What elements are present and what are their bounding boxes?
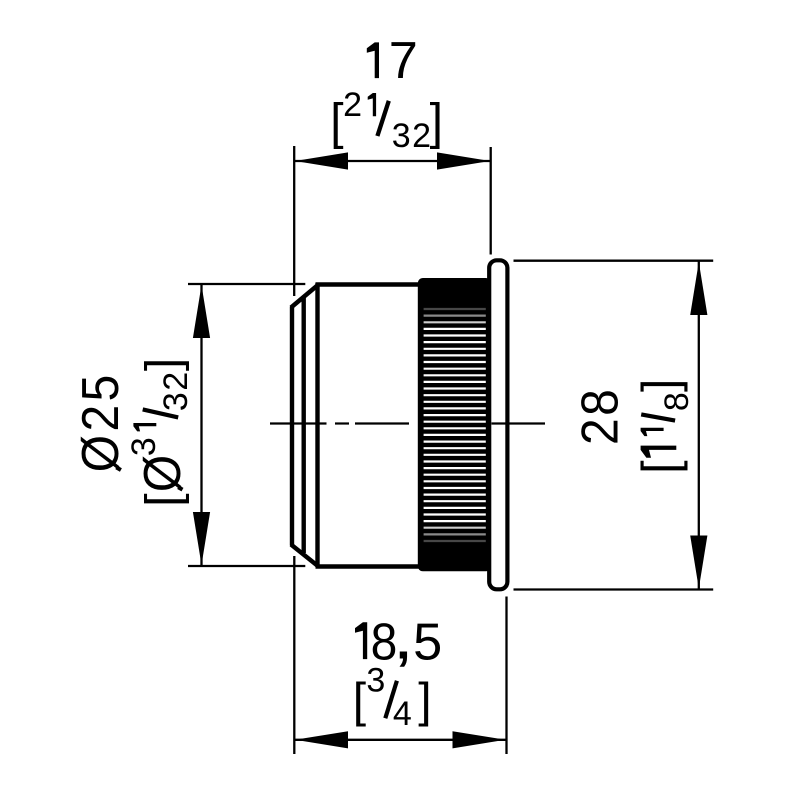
- knurled ring: [418, 278, 491, 571]
- dia 25 inch fraction (rotated): [125, 358, 195, 507]
- dim 17 dimension line: [294, 160, 491, 162]
- dia 25 arrowhead down: [193, 512, 210, 565]
- chamfer top edge: [291, 285, 319, 308]
- svg-text:]: ]: [137, 358, 190, 371]
- svg-text:4: 4: [393, 695, 412, 733]
- svg-text:[: [: [330, 95, 344, 150]
- svg-text:5: 5: [413, 613, 442, 671]
- cylinder top edge: [316, 282, 421, 286]
- dim 18,5 arrowhead left: [295, 731, 348, 748]
- dia 25 extension line top: [188, 283, 305, 285]
- dim 17 extension line right: [490, 147, 492, 255]
- svg-text:]: ]: [632, 379, 688, 392]
- dim 28 inch fraction (rotated): [632, 379, 696, 474]
- dim 28 arrowhead up: [690, 262, 707, 315]
- dim 28 extension line top: [514, 260, 714, 262]
- svg-text:2: 2: [343, 86, 362, 124]
- dim 17 value: [367, 32, 418, 90]
- dim 18,5 dimension line: [294, 739, 506, 741]
- svg-text:[: [: [353, 675, 366, 728]
- svg-text:32: 32: [392, 117, 433, 155]
- cylinder bottom edge: [316, 564, 421, 568]
- dim 18,5 value: [355, 601, 442, 673]
- front groove line: [302, 296, 306, 553]
- centerline: [270, 422, 545, 424]
- front face line: [290, 307, 294, 546]
- dim 28 value (rotated): [570, 387, 628, 445]
- dia 25 dimension line: [200, 284, 202, 566]
- svg-text:3: 3: [366, 661, 385, 699]
- dim 18,5 arrowhead right: [453, 731, 506, 748]
- chamfer bottom edge: [291, 545, 319, 567]
- dim 18,5 extension line right: [505, 597, 507, 755]
- dia 25 value (rotated): [71, 371, 129, 472]
- svg-text:[: [: [137, 493, 190, 506]
- svg-text:Ø25: Ø25: [71, 371, 129, 472]
- svg-text:,: ,: [393, 601, 414, 673]
- svg-text:Ø: Ø: [133, 455, 191, 492]
- dim 17 arrowhead right: [437, 152, 490, 169]
- dim 17 extension line left: [293, 146, 295, 296]
- dim 18,5 extension line left: [293, 556, 295, 754]
- body outline: [291, 283, 420, 567]
- dim 18,5 inch fraction [3/4]: [353, 661, 432, 733]
- dim 28 arrowhead down: [690, 536, 707, 589]
- shoulder line: [315, 283, 319, 567]
- dia 25 extension line bottom: [188, 565, 305, 567]
- svg-text:[: [: [632, 460, 688, 474]
- dia 25 arrowhead up: [193, 285, 210, 338]
- svg-text:3: 3: [125, 437, 163, 456]
- dim 28 extension line bottom: [514, 588, 714, 590]
- flange disc: [489, 260, 507, 589]
- svg-text:28: 28: [570, 387, 628, 445]
- svg-text:]: ]: [418, 675, 431, 728]
- dim 17 inch fraction [21/32]: [330, 86, 443, 155]
- svg-text:8: 8: [658, 392, 696, 411]
- svg-text:]: ]: [430, 95, 443, 150]
- svg-text:32: 32: [157, 370, 195, 411]
- svg-text:7: 7: [389, 32, 418, 90]
- dim 17 arrowhead left: [295, 152, 348, 169]
- dim 28 dimension line: [698, 261, 700, 590]
